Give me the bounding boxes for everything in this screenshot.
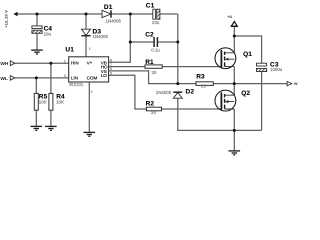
wire C2 right (158, 41, 178, 43)
wire Q2 drain (233, 84, 235, 96)
ground COM (84, 132, 96, 136)
svg-text:W: W (294, 82, 298, 86)
transistor Q2 (215, 90, 250, 111)
svg-text:WH: WH (0, 61, 9, 67)
node LIN junction R5 (35, 76, 38, 79)
svg-text:0.1u: 0.1u (151, 47, 160, 52)
svg-text:20: 20 (152, 70, 157, 75)
wire D1 cathode to C1 (111, 13, 153, 15)
svg-text:R2: R2 (146, 101, 155, 108)
wire +U branch to C3 (234, 36, 261, 63)
node VB junction C2 (129, 41, 132, 44)
svg-text:D2: D2 (186, 89, 195, 96)
svg-text:Q2: Q2 (241, 90, 250, 97)
output arrow W (287, 81, 298, 86)
svg-text:Q1: Q1 (243, 51, 252, 58)
diode D2 1N4005 (156, 89, 195, 99)
ground C4 (31, 50, 43, 54)
wire +12V rail (18, 13, 102, 15)
svg-text:10u: 10u (44, 32, 52, 37)
IC U1 IR2101 (64, 47, 112, 94)
input arrow WH (0, 61, 14, 67)
wire COM vertical (88, 82, 90, 132)
svg-text:HIN: HIN (71, 61, 79, 66)
svg-text:V+: V+ (87, 61, 93, 66)
ground R5 (31, 126, 43, 130)
svg-text:+12..20 V: +12..20 V (4, 10, 8, 28)
svg-text:20: 20 (151, 110, 156, 115)
wire D2 anode and ground bus (178, 98, 262, 130)
svg-text:1N4005: 1N4005 (156, 90, 172, 95)
node VB junction top (129, 13, 132, 16)
wire C1 to VS vertical (160, 13, 178, 15)
wire VS bootstrap vertical (177, 14, 179, 84)
wire R2 to Q2 gate (162, 108, 222, 110)
svg-text:C2: C2 (145, 31, 154, 38)
capacitor C1 22u (146, 3, 160, 25)
ground R4 (45, 126, 57, 130)
svg-text:5: 5 (110, 71, 112, 75)
svg-text:1N4005: 1N4005 (106, 18, 122, 23)
node VS junction C2 (176, 41, 179, 44)
svg-text:10K: 10K (39, 99, 47, 104)
resistor R2 20 (146, 101, 162, 116)
svg-text:WL: WL (0, 76, 8, 82)
svg-text:2: 2 (64, 59, 66, 63)
wire LIN input (15, 77, 69, 79)
svg-text:20: 20 (201, 83, 206, 88)
node +12V junction C4 (36, 13, 39, 16)
svg-text:+U: +U (227, 15, 232, 19)
svg-text:U1: U1 (65, 47, 74, 54)
wire Q1 source to phase node (233, 67, 235, 84)
wire C3 bottom (261, 71, 263, 130)
svg-text:22u: 22u (152, 20, 160, 25)
power arrow +U (227, 15, 238, 27)
wire W output (234, 83, 287, 85)
diode D1 1N4005 (102, 4, 121, 23)
svg-text:LIN: LIN (71, 75, 78, 80)
wire V+ vertical through D3 (85, 14, 87, 57)
svg-text:10K: 10K (56, 99, 64, 104)
wire HIN input (15, 62, 69, 64)
wire ground stub right (233, 130, 235, 150)
wire R3 left lead (178, 83, 196, 85)
node +12V junction D3 (85, 13, 88, 16)
wire HO to R1 (109, 66, 145, 68)
diode D3 1N4005 (82, 29, 109, 40)
wire C2 left (130, 41, 153, 43)
wire VS route (109, 71, 178, 84)
node phase W junction (233, 82, 236, 85)
svg-text:1000u: 1000u (270, 67, 283, 72)
capacitor C3 1000u (257, 62, 283, 73)
node VS junction D2 (176, 82, 179, 85)
svg-text:3: 3 (64, 74, 66, 78)
capacitor C2 0.1u (145, 31, 160, 52)
wire R4 vertical (50, 63, 52, 126)
wire Q2 source (233, 109, 235, 130)
svg-text:R1: R1 (145, 59, 154, 66)
wire +U stem (233, 27, 235, 53)
wire R1 to Q1 gate (162, 66, 222, 68)
resistor R3 20 (196, 73, 213, 88)
svg-text:COM: COM (87, 75, 98, 80)
input arrow WL (0, 76, 14, 82)
svg-text:LO: LO (101, 73, 108, 78)
wire VB vertical (109, 14, 131, 62)
wire R5 vertical (35, 78, 37, 126)
node ground bus junction (233, 129, 236, 132)
wire LO to R2 (109, 75, 147, 109)
resistor R1 20 (145, 59, 162, 75)
svg-text:C1: C1 (146, 3, 155, 10)
svg-text:1N4005: 1N4005 (93, 34, 109, 39)
node +U junction (233, 35, 236, 38)
power arrow +12..20V (4, 10, 17, 28)
wire R3 right lead (213, 83, 234, 85)
svg-text:IR2101: IR2101 (69, 82, 84, 87)
node HIN junction R4 (49, 62, 52, 65)
svg-text:D1: D1 (104, 4, 113, 11)
svg-text:R3: R3 (196, 73, 205, 80)
svg-text:1: 1 (89, 47, 91, 51)
wire C4 vertical (36, 14, 38, 50)
ground right (229, 151, 241, 155)
capacitor C4 10u (32, 25, 53, 36)
resistor R5 10K (34, 93, 47, 110)
resistor R4 10K (49, 93, 65, 110)
svg-text:4: 4 (91, 90, 93, 94)
transistor Q1 (215, 48, 252, 69)
